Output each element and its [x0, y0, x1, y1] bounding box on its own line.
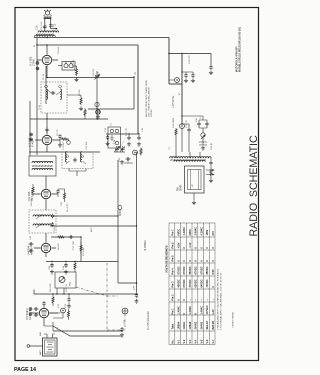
svg-text:BATT: BATT — [39, 349, 42, 355]
tube V3 1U5 det-af — [41, 189, 50, 198]
svg-text:+ 67.5V B+: + 67.5V B+ — [172, 95, 175, 108]
wire bus y=45 — [36, 44, 138, 46]
svg-text:47: 47 — [179, 92, 181, 95]
svg-text:Pin 4: Pin 4 — [172, 268, 175, 275]
svg-text:R6 1M: R6 1M — [58, 243, 60, 250]
wire y=283 — [118, 282, 137, 284]
svg-text:67VDC: 67VDC — [183, 279, 186, 287]
capacitor C11 in T5 — [51, 214, 54, 219]
wire stub x=211 — [210, 54, 212, 66]
svg-text:V-2: V-2 — [183, 339, 186, 343]
resistor R11 on 294 bus — [52, 296, 54, 304]
svg-text:67V: 67V — [212, 231, 215, 236]
extra tiny labels — [27, 23, 202, 336]
volume control R9 box — [55, 272, 76, 288]
svg-text:IF 455KC: IF 455KC — [143, 240, 147, 251]
resistor R13 right of V2 — [61, 138, 69, 140]
coil T3 secondary — [80, 152, 82, 162]
coil L2 antenna winding row 2 — [35, 35, 56, 37]
svg-text:V-5: V-5 — [200, 339, 203, 343]
svg-text:ALIGN AT 455KC WITH GANG OPEN: ALIGN AT 455KC WITH GANG OPEN — [145, 80, 148, 117]
svg-text:--: -- — [195, 299, 198, 301]
ground under C16 — [134, 299, 138, 303]
wire vertical x=118 — [117, 160, 119, 283]
table row V-1 — [177, 229, 180, 344]
svg-text:V-7: V-7 — [212, 339, 215, 343]
svg-text:Pin 7: Pin 7 — [172, 229, 175, 236]
cap to ground on y134 left — [106, 135, 109, 140]
svg-text:C1B: C1B — [114, 139, 116, 144]
core hatch between windings — [36, 34, 54, 36]
capacitor C25 at 211 — [209, 65, 212, 70]
svg-text:1.4VAC: 1.4VAC — [183, 227, 186, 236]
svg-text:C1 2-14: C1 2-14 — [41, 21, 43, 30]
svg-text:BA1: BA1 — [39, 331, 42, 336]
svg-text:Pin 3: Pin 3 — [172, 281, 175, 288]
svg-text:C27 .02: C27 .02 — [186, 120, 188, 128]
svg-text:V-3: V-3 — [189, 339, 192, 343]
V5 stems — [32, 306, 58, 326]
svg-text:CONV.: CONV. — [33, 58, 36, 66]
wire V2 stems — [35, 113, 60, 152]
resistor R8 vertical — [74, 262, 76, 270]
svg-text:BAT.A5: BAT.A5 — [212, 320, 215, 329]
cluster below gang: cap pair — [126, 157, 131, 160]
wire vertical x=138 — [137, 45, 139, 134]
wire y=134 — [106, 133, 138, 135]
capacitor C16 end of 283 line — [135, 293, 138, 298]
svg-text:1.4VAC: 1.4VAC — [177, 306, 180, 315]
wire y=226 — [50, 225, 137, 227]
trimmer heads T1 — [45, 85, 62, 88]
svg-text:55VDC: 55VDC — [189, 266, 192, 274]
svg-text:L1: L1 — [55, 23, 57, 26]
svg-text:No.: No. — [172, 339, 175, 343]
wire osc section top y=152 — [29, 151, 100, 153]
svg-text:Pin 6: Pin 6 — [172, 242, 175, 249]
core hatch T4 — [170, 159, 206, 161]
svg-text:--: -- — [206, 299, 209, 301]
svg-text:J1: J1 — [200, 116, 202, 119]
svg-text:R11 1K: R11 1K — [211, 142, 213, 150]
resistor R3 at 141,151 — [140, 148, 142, 156]
svg-text:C6 250: C6 250 — [93, 68, 95, 76]
cap above V5 — [42, 301, 45, 306]
ground under C14 — [67, 304, 71, 308]
svg-text:67VDC: 67VDC — [195, 266, 198, 274]
svg-text:3V4A2: 3V4A2 — [200, 321, 203, 329]
svg-text:C16: C16 — [30, 235, 32, 240]
speaker stem and ground — [193, 193, 195, 200]
battery terminals — [44, 334, 55, 338]
svg-text:2. NO SIGNAL INPUT, VOLUME MAX: 2. NO SIGNAL INPUT, VOLUME MAX., 1.5V “A… — [220, 272, 223, 330]
stem from volume down — [57, 288, 64, 294]
caps left of V4 — [29, 242, 34, 245]
capacitor C8 to ground mid — [127, 136, 130, 141]
wire y=261.5 af line — [46, 261, 118, 263]
svg-text:C21: C21 — [58, 303, 60, 308]
capacitor C22 — [187, 128, 190, 133]
svg-text:T1 IF: T1 IF — [39, 104, 41, 110]
svg-text:0: 0 — [177, 299, 180, 301]
svg-text:0: 0 — [212, 260, 215, 262]
wire arrow to grid — [51, 28, 58, 30]
svg-text:0: 0 — [195, 247, 198, 249]
svg-text:PM: PM — [178, 187, 180, 191]
pickup coil circle at 120,207 — [118, 206, 122, 216]
resistor R10 — [175, 128, 177, 136]
wire battery lead y=346 — [30, 345, 43, 347]
parts inside box: trimmer circles — [110, 129, 118, 144]
svg-text:C17 .005: C17 .005 — [73, 240, 75, 250]
svg-text:©JOHN F. RIDER: ©JOHN F. RIDER — [232, 312, 235, 328]
battery B1 box — [43, 338, 58, 356]
svg-text:T3 IF: T3 IF — [54, 226, 56, 232]
svg-text:0: 0 — [212, 286, 215, 288]
svg-text:S1: S1 — [57, 327, 59, 330]
svg-text:0: 0 — [206, 260, 209, 262]
table row V-7 — [212, 231, 215, 344]
svg-text:27VDC: 27VDC — [189, 279, 192, 287]
output stage cluster: electrolytic C21 — [180, 124, 185, 129]
resistor R6 horizontal on 237 line — [57, 236, 65, 238]
ground under C25 — [209, 71, 213, 75]
wire left rail x=30 — [29, 101, 31, 156]
svg-text:C23: C23 — [27, 307, 29, 312]
svg-text:VOL: VOL — [70, 281, 72, 286]
output terminal arrows — [206, 169, 214, 175]
svg-text:0: 0 — [200, 247, 203, 249]
wire detector y=237 — [51, 236, 81, 238]
electrolytic C23 at 135,152 — [133, 150, 138, 155]
svg-text:MODELS 5R11U 5R12U 5R13U HS-29: MODELS 5R11U 5R12U 5R13U HS-291 — [239, 26, 242, 72]
caps left of V5 — [34, 307, 39, 310]
svg-text:C11 100: C11 100 — [86, 141, 88, 150]
table column header row (left col) — [172, 229, 175, 344]
wire y=53.5 top right — [169, 53, 211, 55]
V3 stems — [33, 176, 58, 210]
table row V-4 — [195, 227, 198, 344]
svg-text:0: 0 — [189, 260, 192, 262]
coil T2 winding row2 — [32, 168, 53, 170]
wire vertical x=46 tube V1 cathode run — [45, 66, 47, 104]
capacitor C9 to ground right — [137, 136, 140, 141]
IF transformer T5 dashed box — [29, 210, 56, 233]
wire main bus y=37 — [34, 37, 169, 39]
svg-text:0: 0 — [183, 247, 186, 249]
svg-text:8.5V: 8.5V — [212, 269, 215, 274]
svg-text:R7 470K: R7 470K — [83, 247, 85, 256]
capacitor C14 — [67, 297, 70, 302]
grommet pair left of V5 — [29, 308, 32, 316]
ground under gang cluster — [120, 160, 124, 164]
wire vertical x=134 — [133, 78, 135, 110]
svg-text:OUTPUT: OUTPUT — [29, 310, 32, 320]
svg-text:0: 0 — [200, 260, 203, 262]
wire V5 to filament bus — [44, 322, 53, 331]
junction dot — [96, 77, 98, 79]
svg-text:0: 0 — [177, 260, 180, 262]
svg-text:C5 .01: C5 .01 — [43, 73, 45, 80]
loop antenna E1 top assembly — [44, 9, 52, 31]
arrows slugs T5 — [36, 215, 41, 228]
table row V-3 — [189, 229, 192, 344]
svg-text:C26 40MF: C26 40MF — [173, 117, 175, 128]
svg-text:T2 OSC: T2 OSC — [63, 142, 65, 150]
capacitor C12 on 237 line — [69, 235, 74, 238]
svg-text:0: 0 — [183, 299, 186, 301]
svg-text:R4 10M: R4 10M — [31, 198, 33, 206]
svg-text:C14: C14 — [142, 127, 144, 132]
svg-text:1. MEASURED WITH VOLTOHMYST FR: 1. MEASURED WITH VOLTOHMYST FROM PIN TO … — [217, 268, 220, 330]
svg-text:PAGE 14: PAGE 14 — [14, 367, 36, 373]
svg-text:0VDC: 0VDC — [189, 229, 192, 236]
page border frame — [15, 8, 259, 361]
svg-text:OSC. TRACKS 455KC ABOVE: OSC. TRACKS 455KC ABOVE — [148, 86, 151, 117]
IF transformer T3 dashed box — [62, 152, 93, 169]
svg-text:S-1 ON VOLUME: S-1 ON VOLUME — [147, 311, 150, 330]
svg-text:R10: R10 — [196, 117, 198, 122]
svg-text:0: 0 — [195, 313, 198, 315]
svg-text:--: -- — [212, 299, 215, 301]
svg-text:0: 0 — [195, 260, 198, 262]
svg-text:1U4A1: 1U4A1 — [183, 321, 186, 329]
ground under — [209, 179, 213, 183]
ground C6 — [58, 143, 62, 147]
svg-text:C4 100: C4 100 — [58, 46, 60, 54]
capacitor C10 right of V3 — [56, 189, 59, 194]
wire y=119 — [30, 118, 108, 120]
svg-text:3V4A2: 3V4A2 — [195, 321, 198, 329]
grommet symbols left margin — [36, 62, 39, 70]
svg-text:SEL.A7: SEL.A7 — [206, 320, 209, 329]
svg-text:1.4VAC: 1.4VAC — [200, 306, 203, 315]
resistor R2 right of T1 — [80, 97, 82, 105]
svg-text:64VDC: 64VDC — [200, 279, 203, 287]
svg-text:C12: C12 — [105, 127, 107, 132]
capacitor C13 — [64, 263, 67, 268]
capacitor C7 inside T3 — [73, 158, 76, 163]
oscillator coil T2 box with windings — [29, 156, 56, 176]
secondary winding T4 — [174, 160, 205, 162]
table row V-2 — [183, 227, 186, 344]
resistor R4 left of V3 — [32, 186, 34, 194]
svg-text:67VDC: 67VDC — [183, 266, 186, 274]
ground below R1 — [74, 78, 78, 82]
svg-text:IF AMP: IF AMP — [32, 139, 35, 147]
svg-text:0: 0 — [183, 260, 186, 262]
cap above V2 — [45, 128, 48, 133]
arrows slugs T3 — [66, 155, 86, 164]
tube V2 1U4 IF amp — [42, 135, 51, 144]
svg-text:Pin 1: Pin 1 — [172, 308, 175, 315]
svg-text:R8 2.2M: R8 2.2M — [50, 284, 52, 292]
svg-text:SPKR: SPKR — [181, 184, 183, 191]
wire vertical x=182 B+ feed — [181, 54, 183, 123]
IF transformer T1 dashed box — [41, 82, 67, 113]
svg-text:0: 0 — [212, 247, 215, 249]
svg-text:1R5A4: 1R5A4 — [177, 321, 180, 329]
dotted gang linkage — [112, 141, 124, 148]
coil T1 primary — [46, 89, 48, 99]
svg-text:67VDC: 67VDC — [177, 266, 180, 274]
svg-text:62VDC: 62VDC — [195, 279, 198, 287]
component value labels scattered (tiny annotations) — [31, 21, 213, 308]
capacitor C1 ant trimmer — [43, 24, 46, 29]
wires output cluster — [176, 122, 189, 152]
svg-text:Pin 2: Pin 2 — [172, 294, 175, 301]
ground under C17 — [120, 333, 124, 337]
svg-text:VC: VC — [192, 184, 194, 187]
resistor R7 on x81 — [80, 244, 82, 252]
ground under speaker — [192, 201, 196, 205]
feed wires into T4 — [176, 152, 200, 158]
wire y=109 grid line — [88, 108, 134, 110]
svg-text:V-1: V-1 — [177, 339, 180, 343]
small tube socket circle at 97,104 — [95, 102, 99, 119]
wire below T3 — [69, 169, 86, 177]
svg-text:T2: T2 — [111, 123, 113, 126]
svg-text:C28: C28 — [134, 285, 136, 290]
svg-text:1U5A6: 1U5A6 — [189, 321, 192, 329]
svg-text:Tube: Tube — [172, 323, 175, 329]
svg-text:C1A: C1A — [36, 25, 39, 30]
svg-text:0: 0 — [206, 247, 209, 249]
svg-text:2.8VAC: 2.8VAC — [195, 227, 198, 236]
svg-text:C1C: C1C — [119, 157, 121, 162]
wire vertical x=81 — [80, 237, 82, 262]
grommets left of V2 — [30, 133, 33, 141]
gang marker crossed circle — [122, 308, 128, 314]
capacitor C17 at 122,328 — [120, 327, 123, 332]
tube V1 1R5 converter — [42, 55, 51, 64]
svg-text:1.4V: 1.4V — [212, 309, 215, 314]
pot symbol — [59, 277, 65, 283]
resistor R14 right of V5 — [67, 310, 69, 318]
coil T3 primary — [65, 152, 67, 162]
caps on jack — [197, 122, 200, 127]
svg-text:C15: C15 — [61, 201, 63, 206]
tube V4 1U5 af amp — [41, 243, 50, 252]
svg-text:RADIO SCHEMATIC: RADIO SCHEMATIC — [248, 135, 260, 236]
svg-text:1620KC: 1620KC — [151, 109, 153, 117]
coil T2 winding row1 — [32, 161, 53, 163]
grounds for that pair — [184, 79, 188, 83]
electrolytic C15 right of V5 — [61, 308, 66, 313]
bypass circle part at 67.5,143 — [67, 139, 71, 144]
svg-text:67VDC: 67VDC — [200, 266, 203, 274]
svg-text:4.2VAC: 4.2VAC — [200, 227, 203, 236]
svg-text:C7: C7 — [98, 71, 100, 75]
junction dots on bus — [136, 282, 138, 284]
resistor R5 — [63, 192, 65, 200]
wire y=216 — [53, 215, 118, 217]
svg-text:AVC: AVC — [90, 227, 93, 232]
osc grid cap C4 cluster box — [58, 62, 75, 71]
coil T5 primary — [33, 215, 51, 217]
dash-dot S1 link diagonal — [76, 287, 107, 296]
table row V-6 — [206, 229, 209, 343]
wire left column vertical x=37 — [36, 38, 38, 155]
trimmer C3 at 97,72 — [95, 71, 100, 109]
battery terminal circle — [27, 345, 30, 348]
electrolytic C20 at 177,80 — [175, 78, 180, 83]
svg-text:T4: T4 — [169, 147, 171, 150]
svg-text:0VDC: 0VDC — [177, 229, 180, 236]
component box mid right — [108, 127, 121, 148]
coil T5 secondary — [33, 224, 51, 226]
jack J1 cluster right — [199, 126, 207, 145]
coil T1 secondary — [60, 89, 62, 99]
svg-text:R2 1M: R2 1M — [79, 89, 81, 96]
ground under jack — [201, 146, 205, 150]
svg-text:C13 .05: C13 .05 — [126, 128, 128, 136]
table row V-5 — [200, 227, 203, 344]
wire vertical x=169 — [168, 38, 170, 85]
coil L1 antenna winding row 1 — [38, 31, 59, 33]
svg-text:C24 C25: C24 C25 — [189, 55, 191, 64]
svg-text:1.4VAC: 1.4VAC — [189, 306, 192, 315]
svg-text:R5 4.7M: R5 4.7M — [67, 204, 69, 212]
svg-text:--: -- — [200, 299, 203, 301]
wire V1 stem — [37, 45, 58, 78]
arrows tuning slugs T1 — [48, 90, 61, 95]
wire y=84 link — [169, 83, 182, 85]
svg-text:-1.1V: -1.1V — [189, 242, 192, 248]
V4 stems — [34, 233, 56, 257]
tube pin part at 98,111 — [96, 110, 101, 115]
wire rf coupling y=77.5 — [47, 77, 134, 79]
output transformer T4 winding bar — [170, 157, 212, 159]
svg-text:B-: B- — [34, 45, 36, 47]
svg-text:0: 0 — [183, 313, 186, 315]
wire b- bus y=294 — [34, 290, 138, 295]
wire y=331 filament — [53, 330, 122, 332]
tube V5 3V4 output — [39, 308, 48, 317]
ground below — [96, 115, 100, 119]
resistor R1 to ground — [75, 68, 77, 76]
capacitor C2 on right leg — [49, 23, 52, 28]
wire diagonal switch lead — [53, 326, 122, 336]
voltage table grid — [169, 223, 215, 345]
svg-text:85VDC: 85VDC — [206, 266, 209, 274]
caps to ground on 261 line — [50, 263, 53, 268]
svg-text:74VDC: 74VDC — [206, 279, 209, 287]
core hatch T2 — [32, 165, 53, 167]
svg-text:105V: 105V — [206, 229, 209, 235]
capacitor C5 inside T1 — [51, 91, 56, 94]
svg-text:-6.8V: -6.8V — [177, 242, 180, 248]
cap + resistor right of speaker — [209, 161, 212, 166]
caps to ground cluster near top right x188 — [184, 73, 187, 78]
svg-text:R1 3.3M: R1 3.3M — [73, 60, 75, 68]
svg-text:--: -- — [189, 299, 192, 301]
junction dot x169 y53.5 — [168, 53, 170, 55]
wire vertical x=136.5 long — [136, 152, 138, 292]
speaker SP1 box — [185, 166, 205, 193]
svg-text:V-6: V-6 — [206, 339, 209, 343]
tuning gang trimmers — [114, 146, 125, 152]
svg-text:VOLTAGE READINGS: VOLTAGE READINGS — [165, 245, 169, 273]
capacitor C6 right of V2 — [58, 134, 61, 139]
svg-text:117VAC: 117VAC — [206, 305, 209, 314]
svg-text:Pin 5: Pin 5 — [172, 255, 175, 262]
wire dash-dot tuning linkage — [107, 263, 125, 330]
resistor R12 above y119 — [84, 109, 86, 117]
svg-text:45VDC: 45VDC — [177, 279, 180, 287]
svg-text:C9 .05: C9 .05 — [57, 129, 59, 136]
ground below R2 — [79, 107, 83, 111]
